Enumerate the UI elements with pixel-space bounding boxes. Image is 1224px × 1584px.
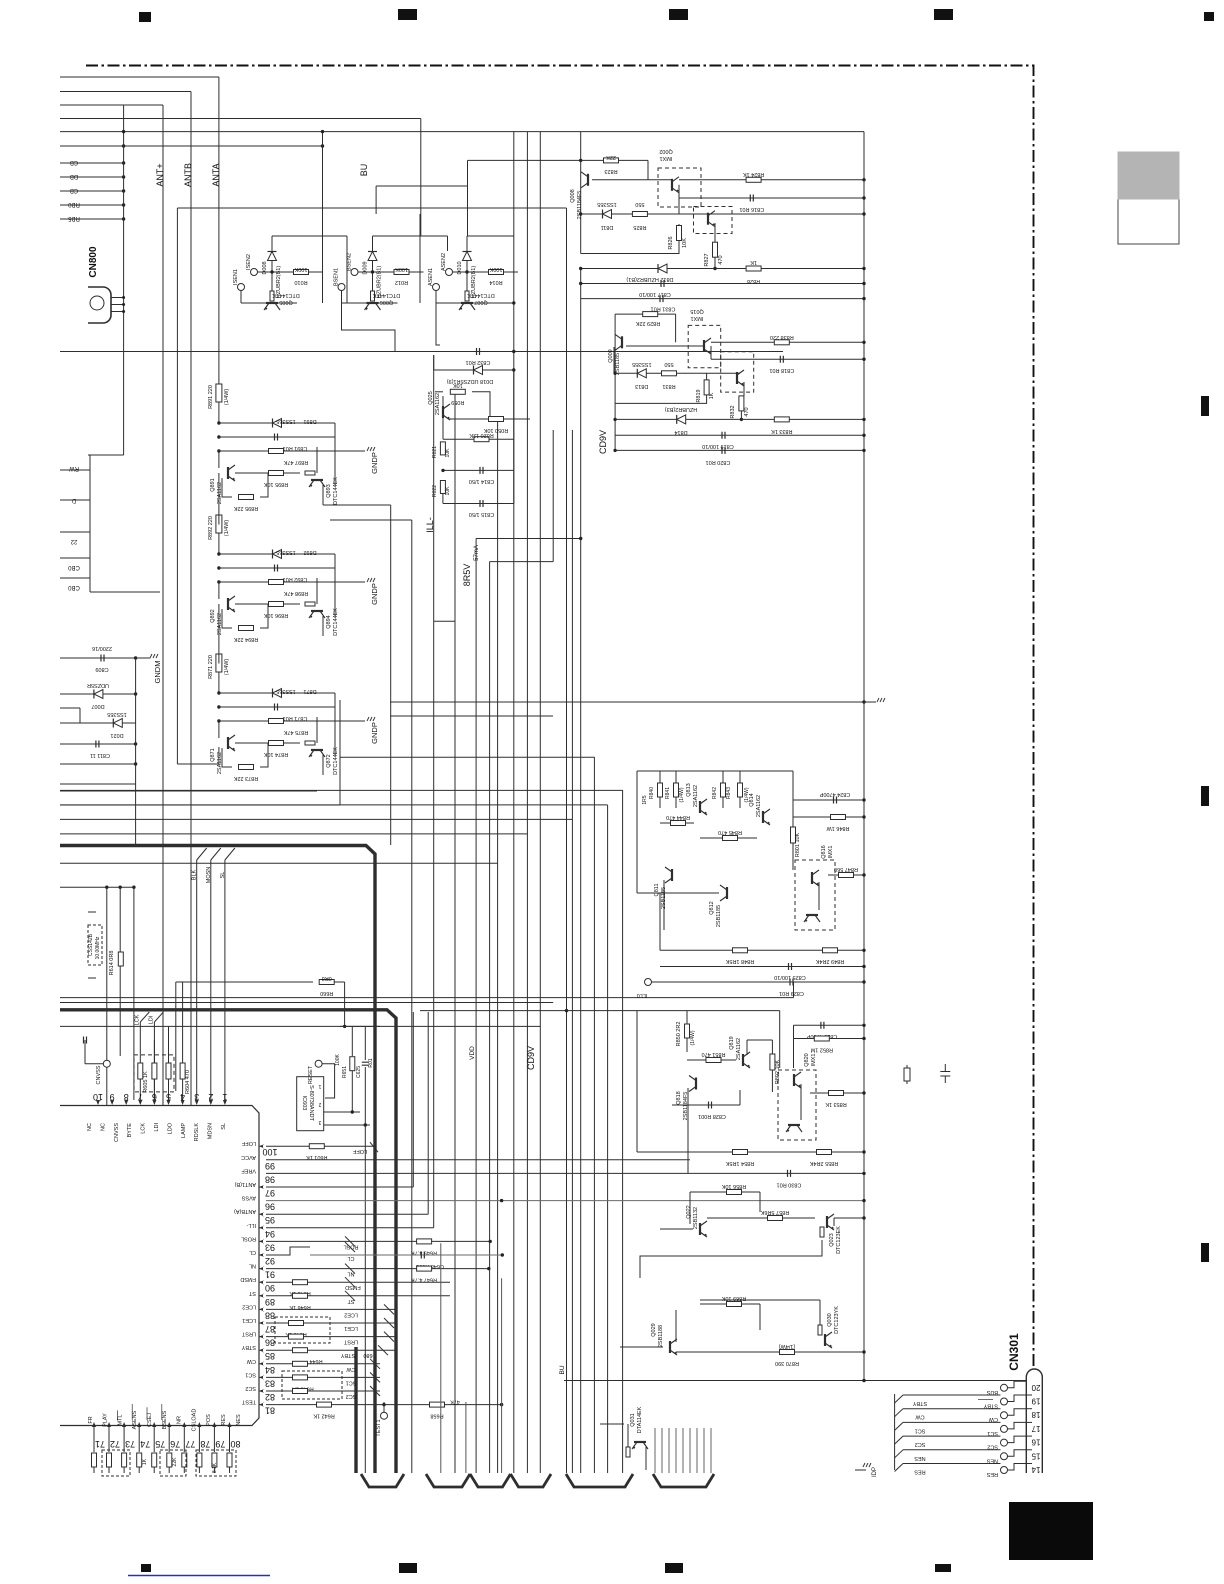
connector CN800: [88, 246, 125, 323]
wire mid bus verticals: [391, 132, 623, 1473]
ground IDP: [855, 1463, 878, 1477]
svg-text:R644: R644: [309, 1358, 322, 1364]
ground GNDP: [367, 717, 379, 744]
svg-text:95: 95: [265, 1215, 275, 1225]
wire sensor outputs: [60, 301, 783, 353]
svg-text:Q008: Q008: [570, 189, 576, 202]
svg-text:CW: CW: [246, 1358, 256, 1364]
svg-text:72: 72: [110, 1439, 120, 1449]
svg-text:STBY: STBY: [912, 1400, 927, 1406]
svg-text:1: 1: [318, 1083, 321, 1089]
svg-text:Q891: Q891: [210, 478, 216, 491]
svg-text:83: 83: [265, 1378, 275, 1388]
svg-text:ISEN2: ISEN2: [246, 254, 252, 270]
svg-text:NC: NC: [100, 1123, 106, 1131]
svg-text:1SS355: 1SS355: [276, 688, 296, 694]
diode D89291 1SS355: [219, 549, 335, 616]
transistor Q009 2SB1185: [608, 334, 622, 375]
svg-text:R838 220: R838 220: [770, 334, 794, 340]
svg-text:MTL: MTL: [117, 1415, 123, 1426]
transistor Q029 2SB1188: [620, 1310, 677, 1355]
svg-text:97: 97: [265, 1188, 275, 1198]
svg-text:47K: 47K: [450, 1399, 460, 1405]
svg-text:1K: 1K: [142, 1458, 148, 1465]
resistor R651 100K: [335, 1027, 355, 1114]
svg-text:14: 14: [1031, 1465, 1040, 1474]
wire lower-left stubs: [60, 455, 160, 592]
svg-text:DTC144EK: DTC144EK: [333, 608, 339, 636]
svg-text:SC1: SC1: [245, 1371, 256, 1377]
svg-text:D021: D021: [110, 732, 123, 738]
svg-text:76: 76: [170, 1439, 180, 1449]
svg-text:R658: R658: [430, 1413, 443, 1419]
svg-text:RES: RES: [914, 1469, 926, 1475]
resistor R838 220: [770, 334, 794, 345]
diode D812 HZUBR2(B1): [579, 264, 866, 282]
svg-text:BSEN2: BSEN2: [347, 253, 353, 271]
svg-text:R874 10K: R874 10K: [263, 751, 288, 757]
svg-text:R604 470: R604 470: [185, 1070, 191, 1094]
svg-text:R020 12K: R020 12K: [469, 432, 494, 438]
svg-text:C625: C625: [356, 1066, 362, 1078]
capacitor C831 R01: [581, 295, 866, 311]
svg-text:LDI: LDI: [148, 1015, 154, 1024]
svg-text:R850 2R2: R850 2R2: [676, 1022, 682, 1047]
svg-text:90: 90: [265, 1283, 275, 1293]
capacitor C871 R01: [217, 704, 335, 722]
svg-text:DTC123EK: DTC123EK: [836, 1226, 842, 1254]
svg-text:R852 1M: R852 1M: [810, 1047, 833, 1053]
svg-text:RES: RES: [986, 1471, 998, 1477]
svg-text:RESET: RESET: [308, 1065, 314, 1084]
transistor Q031 DTA114EK: [600, 1406, 648, 1470]
svg-text:CNVSS: CNVSS: [96, 1065, 102, 1084]
ground mid right: [862, 698, 885, 704]
svg-text:R875 47K: R875 47K: [283, 729, 308, 735]
svg-text:CL: CL: [347, 1255, 354, 1261]
wire shield bus 2 (thick): [60, 1010, 396, 1473]
svg-text:DTC144TK: DTC144TK: [372, 292, 400, 298]
resistor R891 220 (1/4W): [208, 384, 230, 425]
svg-text:C818 R01: C818 R01: [769, 367, 794, 373]
svg-text:ILL-: ILL-: [246, 1222, 256, 1228]
resistor R014 100K: [467, 266, 518, 285]
svg-text:LAMP: LAMP: [181, 1123, 187, 1138]
transistor Q007 DTC144TK: [436, 291, 495, 310]
svg-text:C871 R01: C871 R01: [283, 715, 308, 721]
capacitor C818 R01: [711, 356, 866, 373]
transistor Q015b dashed: [721, 352, 754, 396]
svg-text:D009: D009: [363, 261, 369, 274]
svg-text:R873 22K: R873 22K: [233, 775, 258, 781]
resistor R819 1K: [615, 373, 715, 403]
transistor Q819 2SA1162: [729, 1036, 750, 1068]
capacitor C832 R01: [466, 348, 491, 365]
svg-text:Q813: Q813: [686, 783, 692, 796]
transistor Q820 IMX1 (dual): [778, 1053, 817, 1140]
wire harness braces: [361, 1474, 714, 1487]
svg-text:Q030: Q030: [827, 1313, 833, 1326]
svg-text:R012: R012: [395, 279, 408, 285]
resistor R895 22K: [222, 473, 268, 511]
svg-text:(1/4W): (1/4W): [224, 389, 230, 406]
node BLK MOSN SL taps: [192, 848, 235, 1100]
svg-text:LCK: LCK: [134, 1014, 140, 1025]
node ISEN1: [233, 269, 245, 303]
svg-text:LCE2: LCE2: [344, 1311, 358, 1317]
transistor Q871 2SA1162: [210, 721, 235, 774]
svg-text:CSEJ: CSEJ: [147, 1413, 153, 1427]
node VDD: [469, 1046, 476, 1060]
svg-text:C820 R01: C820 R01: [706, 459, 731, 465]
svg-text:84: 84: [265, 1365, 275, 1375]
svg-text:ASEN2: ASEN2: [441, 253, 447, 271]
svg-text:ANTB: ANTB: [183, 163, 193, 187]
svg-text:C829 R01: C829 R01: [779, 990, 804, 996]
svg-text:R833 1K: R833 1K: [771, 428, 793, 434]
svg-text:R898 47K: R898 47K: [283, 590, 308, 596]
svg-text:C824 4700P: C824 4700P: [819, 791, 850, 797]
wire cell rails: [272, 130, 514, 1473]
transistor Q030 DTC123YK: [700, 1300, 840, 1348]
resistor R871 220 (1/4W): [208, 654, 230, 695]
svg-text:85: 85: [265, 1351, 275, 1361]
svg-text:CB: CB: [70, 187, 78, 193]
node BU bottom: [559, 1365, 566, 1374]
svg-text:18: 18: [1031, 1410, 1040, 1419]
svg-text:HZUBR2(B3): HZUBR2(B3): [665, 406, 698, 412]
wire BUS row to CN301: [564, 1379, 1026, 1382]
node CD9V: [598, 430, 608, 454]
svg-text:R651: R651: [342, 1066, 348, 1078]
svg-text:94: 94: [265, 1229, 275, 1239]
svg-text:AVCC: AVCC: [241, 1154, 256, 1160]
crystal X601 CSS142B 10.00MHz: [88, 912, 102, 978]
ground GNDM: [136, 654, 162, 683]
svg-text:C809: C809: [95, 666, 108, 672]
svg-text:R831: R831: [662, 383, 675, 389]
resistor R801 10K: [791, 771, 802, 870]
resistor R022 10K: [432, 481, 451, 504]
capacitor C809 2200/16: [60, 645, 137, 672]
svg-text:D811: D811: [601, 224, 614, 230]
svg-text:SC1: SC1: [346, 1379, 357, 1385]
wire Q818 emitter to VREF row: [687, 1152, 689, 1173]
svg-text:Q872: Q872: [326, 754, 332, 767]
svg-text:IMX1: IMX1: [828, 846, 834, 859]
capacitor C892 R01: [217, 565, 335, 583]
svg-text:Q892: Q892: [210, 609, 216, 622]
svg-text:IMX1: IMX1: [691, 315, 704, 321]
resistor R847 560: [828, 866, 866, 878]
svg-text:1SS355: 1SS355: [276, 418, 296, 424]
capacitor C817 100/10: [579, 280, 866, 297]
transistor Q015 IMX1 (dual): [626, 308, 866, 368]
svg-text:Q893: Q893: [326, 484, 332, 497]
resistor R802 10K: [747, 1040, 781, 1092]
svg-text:DB: DB: [70, 173, 78, 179]
svg-text:FR: FR: [88, 1416, 94, 1423]
wire CN301 tap bus: [895, 1394, 1001, 1475]
svg-text:86: 86: [265, 1338, 275, 1348]
svg-text:MDSN: MDSN: [208, 1123, 214, 1139]
node RESET: [308, 1060, 335, 1098]
svg-text:1SS355: 1SS355: [597, 201, 617, 207]
svg-text:R855 2R4K: R855 2R4K: [809, 1160, 838, 1166]
svg-text:2SA1162: 2SA1162: [693, 785, 699, 807]
transistor Q891 2SA1162: [210, 451, 235, 504]
svg-text:(1/4W): (1/4W): [224, 520, 230, 537]
svg-text:R605 1K: R605 1K: [143, 1071, 149, 1093]
svg-text:CB0: CB0: [68, 584, 80, 590]
svg-text:D010: D010: [457, 261, 463, 274]
svg-text:71: 71: [95, 1439, 105, 1449]
svg-text:22: 22: [70, 538, 77, 544]
svg-text:98: 98: [265, 1174, 275, 1184]
IC801 microcontroller outline: [60, 1106, 259, 1426]
svg-text:R847 560: R847 560: [834, 866, 858, 872]
diode D021 1SS355: [60, 708, 136, 738]
svg-text:R840: R840: [649, 787, 655, 799]
resistor R850 2R2 (1/4W): [676, 1011, 696, 1052]
wire left stubs to CN800: [60, 105, 125, 455]
svg-text:NES: NES: [986, 1457, 998, 1463]
ground GNDP: [367, 447, 379, 474]
svg-text:1R5: 1R5: [642, 795, 648, 804]
transistor Q816 IMX1 (dual FET): [795, 845, 835, 930]
node BSEN2: [347, 253, 375, 276]
svg-text:CNVSS: CNVSS: [114, 1123, 120, 1142]
svg-text:100K: 100K: [489, 266, 502, 272]
resistor R854 1R5K: [637, 1150, 866, 1167]
capacitor C828 R001: [672, 1090, 740, 1119]
resistor R059 10K: [435, 382, 490, 419]
svg-text:STBY: STBY: [983, 1403, 998, 1409]
svg-text:78: 78: [200, 1439, 210, 1449]
svg-text:C891 R01: C891 R01: [283, 445, 308, 451]
svg-text:ANTA: ANTA: [211, 163, 221, 186]
svg-text:81: 81: [265, 1406, 275, 1416]
diode D813 1SS355: [613, 361, 740, 389]
svg-text:ASENS: ASENS: [132, 1410, 138, 1429]
resistor R826 10K: [581, 224, 688, 254]
IC801 bottom pins 71-80: [88, 1404, 242, 1473]
svg-text:SC1: SC1: [987, 1430, 998, 1436]
resistor R892 220 (1/4W): [208, 515, 230, 556]
svg-text:8R5V: 8R5V: [462, 564, 472, 587]
svg-text:R894 22K: R894 22K: [233, 636, 258, 642]
resistor R050 10K: [450, 417, 530, 434]
svg-text:R829 22K: R829 22K: [635, 320, 660, 326]
capacitor C819 100/10: [615, 432, 866, 449]
svg-text:Q006: Q006: [380, 299, 393, 305]
svg-text:R826: R826: [668, 236, 674, 249]
svg-text:C816 R01: C816 R01: [739, 206, 764, 212]
resistor R831 550: [662, 361, 677, 389]
svg-text:2SA1162: 2SA1162: [435, 393, 441, 415]
svg-text:R892 220: R892 220: [208, 516, 214, 540]
svg-text:16: 16: [1031, 1438, 1040, 1447]
svg-text:GNDP: GNDP: [370, 452, 379, 474]
svg-text:R851 470: R851 470: [702, 1051, 726, 1057]
wire long rows mid: [60, 982, 794, 1028]
svg-text:LOFF: LOFF: [241, 1140, 256, 1146]
schematic border frame: [86, 66, 1034, 1370]
resistor R010 100K: [272, 266, 323, 285]
svg-text:Q022: Q022: [686, 1205, 692, 1218]
transistor Q814 2SA1162: [749, 793, 770, 825]
transistor Q023 DTC123EK: [640, 1214, 866, 1278]
svg-text:STBY: STBY: [340, 1352, 355, 1358]
svg-text:79: 79: [215, 1439, 225, 1449]
resistor R851 470: [687, 1051, 736, 1063]
svg-text:R896 10K: R896 10K: [263, 612, 288, 618]
svg-text:C828 R001: C828 R001: [698, 1113, 726, 1119]
svg-text:19: 19: [1031, 1397, 1040, 1406]
resistor R848 1R5K: [660, 948, 866, 964]
svg-text:LDO: LDO: [167, 1122, 173, 1134]
node LCK LDI taps: [134, 1012, 163, 1100]
node ANTA: [211, 163, 221, 186]
svg-text:3: 3: [318, 1119, 321, 1125]
transistor Q812 2SB1185: [637, 885, 727, 927]
resistor R857 5R6K: [707, 1209, 815, 1221]
svg-text:ANT1(B): ANT1(B): [234, 1181, 256, 1187]
resistor R020 12K: [443, 417, 514, 442]
svg-text:IMX1: IMX1: [660, 155, 673, 161]
svg-text:C830 R01: C830 R01: [777, 1181, 802, 1187]
svg-text:Q009: Q009: [608, 349, 614, 362]
svg-text:Q818: Q818: [676, 1091, 682, 1104]
resistor R852 1M: [794, 1036, 866, 1053]
svg-text:87: 87: [265, 1324, 275, 1334]
legend resistor symbol: [904, 1065, 910, 1084]
svg-text:100: 100: [262, 1147, 277, 1157]
resistor R660 0R8: [176, 975, 345, 1091]
svg-text:R825: R825: [633, 224, 646, 230]
svg-text:ILL0: ILL0: [637, 992, 648, 998]
svg-text:R853 1K: R853 1K: [825, 1101, 847, 1107]
svg-text:Q812: Q812: [709, 901, 715, 914]
svg-text:2SA1162: 2SA1162: [736, 1038, 742, 1060]
svg-text:77: 77: [185, 1439, 195, 1449]
svg-text:GNDP: GNDP: [370, 583, 379, 605]
ground GNDP: [367, 578, 379, 605]
resistor R875 47K: [217, 719, 365, 736]
svg-text:R870 390: R870 390: [775, 1360, 799, 1366]
svg-text:82: 82: [265, 1392, 275, 1402]
svg-text:17: 17: [1031, 1424, 1040, 1433]
svg-text:D007: D007: [91, 703, 104, 709]
svg-text:(1/4W): (1/4W): [779, 1343, 796, 1349]
svg-text:CD9V: CD9V: [526, 1046, 536, 1070]
svg-text:74: 74: [140, 1439, 150, 1449]
svg-text:LCE1: LCE1: [344, 1325, 358, 1331]
svg-text:1K: 1K: [750, 259, 757, 265]
legend capacitor symbol: [940, 1064, 950, 1083]
svg-text:22K: 22K: [606, 154, 616, 160]
svg-text:10K: 10K: [682, 238, 688, 248]
svg-text:SC2: SC2: [987, 1444, 998, 1450]
resistor R833 1K: [771, 417, 793, 434]
capacitor C825 100/10: [660, 963, 866, 980]
zener diode D010 HZUBR2(B1): [457, 236, 477, 298]
resistor R827 470: [704, 223, 724, 270]
node 8R5V 57mA: [462, 545, 480, 586]
svg-text:2SB1185: 2SB1185: [716, 905, 722, 927]
svg-text:Q816: Q816: [821, 845, 827, 858]
resistor R604 470: [166, 982, 191, 1100]
node ISEN2: [246, 254, 274, 275]
capacitor C625 R01: [340, 1026, 380, 1473]
wire lamp cell feeds: [177, 208, 219, 764]
svg-text:LCE2: LCE2: [242, 1303, 256, 1309]
svg-text:NL: NL: [249, 1263, 256, 1269]
resistor R840 R841 1R5 (1/4W): [642, 771, 685, 808]
svg-text:SC1: SC1: [915, 1427, 926, 1433]
svg-text:Q811: Q811: [654, 883, 660, 896]
svg-text:80: 80: [230, 1439, 240, 1449]
svg-text:R022: R022: [432, 485, 438, 497]
resistor R829 22K: [615, 312, 676, 451]
svg-text:VDD: VDD: [469, 1046, 476, 1060]
svg-text:Q871: Q871: [210, 748, 216, 761]
node ANT+: [155, 163, 165, 186]
node ILL-: [425, 517, 435, 533]
svg-text:C817 100/10: C817 100/10: [639, 291, 671, 297]
svg-text:22K: 22K: [172, 1457, 178, 1467]
svg-text:NES: NES: [236, 1414, 242, 1426]
svg-text:DTC144TK: DTC144TK: [467, 292, 495, 298]
svg-text:IDP: IDP: [872, 1467, 878, 1477]
wire right rail: [863, 132, 865, 1381]
resistor R823 22K: [579, 154, 648, 180]
resistor R824 1K: [743, 171, 765, 182]
svg-text:DTC144TK: DTC144TK: [272, 292, 300, 298]
svg-text:C814 1/50: C814 1/50: [469, 478, 494, 484]
svg-text:BU: BU: [559, 1365, 566, 1374]
transistor Q894 DTC144EK: [305, 578, 339, 636]
svg-text:Q007: Q007: [474, 299, 487, 305]
svg-text:R848 1R5K: R848 1R5K: [725, 958, 754, 964]
svg-text:LCK: LCK: [141, 1123, 147, 1134]
transistor Q025 2SA1162: [428, 391, 450, 420]
svg-text:ANTB(A): ANTB(A): [234, 1208, 256, 1214]
svg-text:BSEN1: BSEN1: [334, 268, 340, 286]
svg-text:DTC123YK: DTC123YK: [834, 1306, 840, 1334]
svg-text:680: 680: [363, 1352, 372, 1358]
capacitor C820 R01: [613, 447, 865, 465]
transistor Q002b in dashed box: [679, 198, 732, 234]
resistor R846 1W: [793, 815, 866, 832]
svg-text:89: 89: [265, 1297, 275, 1307]
svg-text:C819 100/10: C819 100/10: [702, 443, 734, 449]
svg-text:C815 1/50: C815 1/50: [469, 511, 494, 517]
transistor Q006 DTC144TK: [342, 291, 401, 310]
svg-text:R827: R827: [704, 253, 710, 266]
svg-text:100K: 100K: [294, 266, 307, 272]
svg-text:LRST: LRST: [241, 1331, 256, 1337]
transistor Q008 2SB1184F5: [570, 132, 588, 254]
transistor Q813 2SA1162: [686, 783, 707, 815]
svg-text:C832 R01: C832 R01: [466, 359, 491, 365]
svg-text:NC: NC: [87, 1123, 93, 1131]
svg-text:0R8: 0R8: [322, 975, 332, 981]
svg-text:(1/4W): (1/4W): [224, 659, 230, 676]
resistor network R605 1K (dashed): [134, 1040, 174, 1100]
resistor R894 22K: [222, 604, 268, 642]
diode D89191 1SS355: [219, 418, 335, 485]
